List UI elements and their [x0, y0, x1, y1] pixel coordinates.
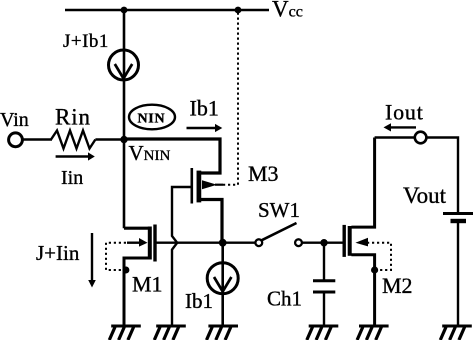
M3 gate lead to ground with hop over node wire — [172, 187, 191, 326]
SW1 right contact — [295, 239, 302, 246]
M1 gate bar — [153, 225, 156, 262]
ground under M1 source — [109, 326, 141, 340]
node junction on Vcc rail (left branch) — [121, 7, 128, 14]
SW1 lever — [262, 223, 297, 240]
svg-text:Vcc: Vcc — [272, 0, 303, 22]
transistor M3 — [172, 168, 223, 326]
voltage source Vout (battery) — [443, 214, 473, 327]
svg-text:NIN: NIN — [138, 112, 166, 127]
node label oval NIN — [129, 105, 175, 130]
M3 gate bar — [191, 168, 194, 204]
capacitor Ch1 — [313, 243, 335, 326]
wire output row — [375, 136, 416, 138]
M1 bulk dotted wire to source — [106, 243, 126, 270]
M1 channel bar — [148, 227, 152, 260]
current arrow Iout — [390, 126, 416, 128]
svg-text:Ib1: Ib1 — [185, 289, 213, 313]
ground under M3 gate — [154, 326, 186, 340]
node junction dot (Ch1 top) — [320, 239, 327, 246]
M2 bulk arrow — [355, 238, 368, 247]
wire switch to M2 gate — [302, 241, 343, 243]
svg-text:Ib1: Ib1 — [190, 96, 219, 121]
wire terminal to Vout branch — [426, 138, 458, 213]
current source Ib1 (bottom) — [221, 243, 224, 326]
svg-text:SW1: SW1 — [258, 198, 300, 222]
svg-text:Vin: Vin — [0, 109, 29, 131]
transistor M2 (gate at left) — [344, 138, 391, 327]
wire node row: M1 gate to switch — [157, 241, 257, 243]
M2 gate bar — [343, 225, 346, 257]
svg-text:M3: M3 — [248, 161, 279, 186]
M1 bulk-source junction dot — [122, 267, 129, 274]
M1 bulk arrow — [127, 241, 139, 243]
ground under Ib1 — [207, 326, 239, 340]
svg-text:Vout: Vout — [403, 183, 447, 208]
svg-text:Rin: Rin — [55, 105, 91, 130]
SW1 left contact — [255, 239, 262, 246]
transistor M1 (mirrored, gate at right) — [106, 225, 155, 327]
ground under Vout — [440, 326, 472, 340]
ground under M2 source — [357, 326, 389, 340]
wire input to resistor — [22, 138, 52, 140]
M3 channel bar — [197, 171, 202, 203]
M1 drain lead — [124, 227, 148, 230]
M3 bulk arrow — [202, 180, 217, 189]
M2 drain lead up to output — [351, 138, 374, 228]
wire Vcc rail — [65, 9, 269, 12]
dotted bulk wire M3 to Vcc — [223, 13, 238, 185]
M1 source lead — [124, 258, 148, 326]
svg-text:Iin: Iin — [61, 167, 83, 189]
wire resistor to node NIN — [95, 138, 124, 140]
M2 channel bar — [348, 226, 352, 256]
M2 bulk-source junction dot — [371, 266, 378, 273]
svg-text:M1: M1 — [132, 272, 163, 297]
wire node NIN to M3 drain — [124, 139, 220, 173]
M2 bulk dotted wire to source — [367, 243, 391, 270]
M2 source lead down — [351, 255, 374, 326]
svg-text:Ch1: Ch1 — [267, 287, 302, 311]
svg-text:J+Iin: J+Iin — [36, 241, 80, 265]
input terminal circle Vin — [9, 133, 23, 147]
svg-text:M2: M2 — [382, 273, 413, 298]
M3 source lead — [199, 200, 222, 243]
output terminal circle Iout — [415, 132, 427, 144]
current source J+Ib1 — [109, 50, 139, 80]
node junction on Vcc rail (dotted branch) — [235, 7, 242, 14]
current arrow Ib1 — [187, 127, 216, 129]
svg-text:Iout: Iout — [385, 100, 424, 125]
svg-text:J+Ib1: J+Ib1 — [63, 31, 109, 52]
wire left branch from Vcc through current source down to M1 drain — [123, 10, 126, 228]
current arrow J+Iin — [91, 233, 93, 280]
switch SW1 — [255, 223, 302, 246]
node junction dot (M3 source / Ib1) — [219, 239, 227, 247]
node NIN junction dot — [120, 136, 127, 143]
current arrow Iin — [56, 155, 88, 157]
resistor Rin — [51, 131, 95, 149]
ground under Ch1 — [307, 326, 339, 340]
